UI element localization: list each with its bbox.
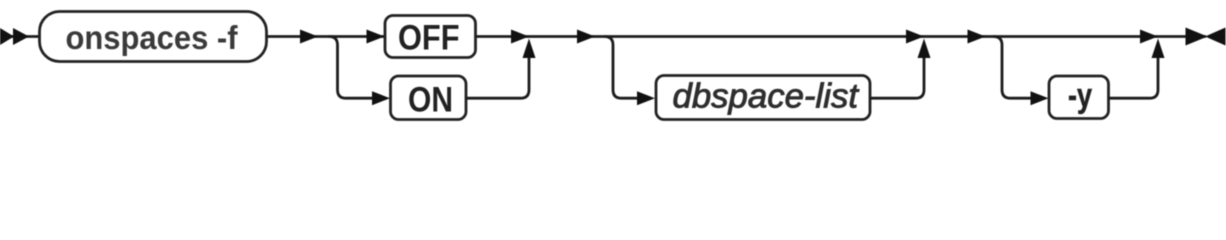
wire -y row rejoin up to main line <box>1109 49 1159 98</box>
up arrowhead join 3 <box>1152 39 1165 59</box>
up arrowhead join 2 <box>918 39 931 59</box>
keyword box OFF <box>385 16 476 58</box>
arrowhead A7 at join 2 <box>906 30 924 44</box>
arrowhead A5 before branch 2 <box>577 30 595 44</box>
terminal box onspaces -f <box>40 12 267 62</box>
svg-text:OFF: OFF <box>398 19 460 58</box>
up arrowhead join 1 <box>523 39 536 59</box>
arrowhead A2 before OFF <box>367 30 385 44</box>
start symbol arrows <box>0 28 29 45</box>
wire main line after OFF <box>476 35 1207 38</box>
keyword box -y <box>1049 76 1109 119</box>
arrowhead A3 before ON <box>372 91 390 105</box>
arrowhead A9 before -y <box>1031 91 1049 105</box>
arrowhead A4 at join 1 <box>511 30 529 44</box>
arrowhead A1 <box>300 30 318 44</box>
end symbol arrows <box>1186 28 1226 46</box>
arrowhead A8 before branch 3 <box>968 30 986 44</box>
wire from onspaces box to OFF box <box>267 35 386 38</box>
svg-text:onspaces -f: onspaces -f <box>66 19 239 56</box>
arrowhead A10 at join 3 <box>1140 30 1158 44</box>
arrowhead A6 before dbspace-list <box>637 91 655 105</box>
keyword box ON <box>391 76 467 120</box>
branch 2 down wire to dbspace-list row <box>605 37 640 99</box>
svg-text:-y: -y <box>1068 77 1092 115</box>
svg-text:ON: ON <box>408 81 453 120</box>
wire ON row rejoin up to main line <box>466 49 529 98</box>
wire main line start segment <box>0 35 40 38</box>
wire dbspace-list row rejoin up to main line <box>870 49 924 98</box>
svg-text:dbspace-list: dbspace-list <box>673 78 860 116</box>
branch 1 down wire to ON row <box>329 37 374 99</box>
variable box dbspace-list <box>656 76 870 120</box>
branch 3 down wire to -y row <box>994 37 1033 99</box>
